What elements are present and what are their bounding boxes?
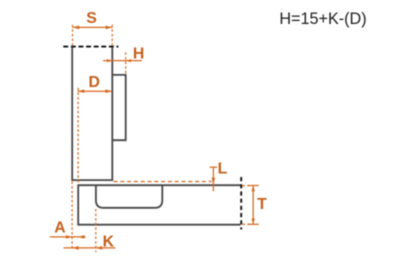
svg-text:H=15+K-(D): H=15+K-(D) (279, 10, 366, 28)
svg-text:K: K (103, 234, 115, 251)
svg-text:S: S (86, 10, 97, 27)
svg-text:H: H (133, 46, 144, 63)
svg-text:A: A (54, 220, 65, 237)
svg-text:L: L (218, 160, 228, 177)
svg-text:D: D (88, 74, 99, 91)
svg-text:T: T (257, 196, 267, 213)
